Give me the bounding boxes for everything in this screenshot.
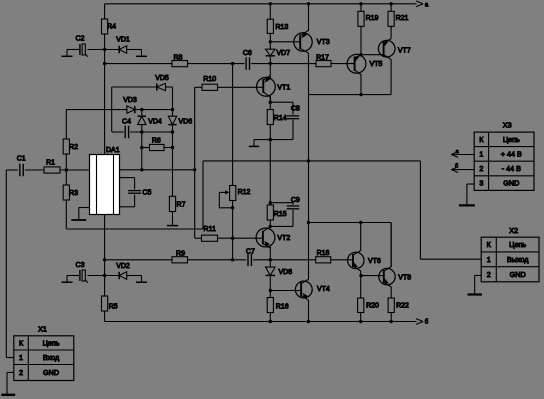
svg-text:2: 2: [487, 270, 491, 279]
svg-text:1: 1: [19, 353, 23, 362]
svg-text:R4: R4: [107, 24, 116, 31]
svg-text:R20: R20: [366, 303, 379, 310]
svg-text:C1: C1: [17, 155, 26, 162]
svg-text:б: б: [425, 320, 429, 326]
svg-text:GND: GND: [503, 179, 519, 188]
svg-text:VT3: VT3: [317, 39, 330, 46]
svg-text:C3: C3: [76, 262, 85, 269]
svg-text:GND: GND: [43, 368, 59, 377]
svg-text:VT7: VT7: [398, 48, 411, 55]
svg-text:+ 44 В: + 44 В: [501, 150, 522, 159]
svg-text:R18: R18: [317, 250, 330, 257]
svg-text:Цепь: Цепь: [509, 240, 526, 249]
svg-text:R14: R14: [274, 115, 287, 122]
svg-text:DA1: DA1: [106, 147, 120, 154]
svg-text:1: 1: [487, 255, 491, 264]
svg-text:R19: R19: [366, 15, 379, 22]
svg-text:R1: R1: [46, 160, 55, 167]
svg-text:VT1: VT1: [277, 84, 290, 91]
svg-text:VT4: VT4: [317, 286, 330, 293]
svg-text:Цепь: Цепь: [503, 135, 520, 144]
svg-text:Выход: Выход: [507, 255, 529, 264]
svg-text:C2: C2: [76, 36, 85, 43]
svg-text:X2: X2: [509, 226, 518, 235]
svg-text:C9: C9: [291, 197, 300, 204]
svg-text:GND: GND: [510, 270, 526, 279]
svg-text:3: 3: [479, 179, 483, 188]
svg-text:VT2: VT2: [277, 235, 290, 242]
svg-text:R15: R15: [274, 211, 287, 218]
svg-text:VT5: VT5: [370, 61, 383, 68]
svg-text:R13: R13: [275, 24, 288, 31]
svg-text:C6: C6: [243, 50, 252, 57]
svg-text:C5: C5: [142, 190, 151, 197]
svg-text:R12: R12: [238, 189, 251, 196]
svg-text:1: 1: [479, 150, 483, 159]
svg-text:VD6: VD6: [178, 118, 192, 125]
svg-text:VD2: VD2: [116, 263, 130, 270]
svg-text:C8: C8: [291, 106, 300, 113]
svg-text:R16: R16: [276, 304, 289, 311]
svg-text:R11: R11: [204, 226, 216, 233]
svg-text:C7: C7: [246, 248, 255, 255]
svg-text:R21: R21: [396, 15, 409, 22]
svg-text:2: 2: [479, 164, 483, 173]
svg-text:2: 2: [19, 368, 23, 377]
svg-text:R5: R5: [109, 304, 118, 311]
svg-text:X3: X3: [503, 121, 512, 130]
svg-text:R3: R3: [69, 190, 78, 197]
svg-text:VT6: VT6: [368, 258, 381, 265]
svg-text:VT8: VT8: [398, 275, 411, 282]
svg-text:VD1: VD1: [116, 37, 130, 44]
svg-text:R9: R9: [176, 251, 185, 258]
svg-text:R10: R10: [203, 76, 216, 83]
svg-text:VD3: VD3: [123, 97, 137, 104]
svg-text:R17: R17: [316, 55, 329, 62]
svg-text:R2: R2: [69, 144, 78, 151]
svg-text:- 44 В: - 44 В: [502, 164, 521, 173]
svg-text:R7: R7: [177, 202, 186, 209]
svg-text:X1: X1: [38, 324, 47, 333]
svg-text:VD4: VD4: [148, 118, 162, 125]
svg-text:VD5: VD5: [155, 75, 169, 82]
svg-text:VD8: VD8: [278, 269, 292, 276]
svg-text:R6: R6: [152, 137, 161, 144]
svg-text:VD7: VD7: [276, 50, 290, 57]
svg-text:б: б: [455, 164, 458, 170]
svg-text:R8: R8: [174, 55, 183, 62]
svg-text:C4: C4: [122, 119, 131, 126]
svg-text:Вход: Вход: [43, 353, 60, 362]
svg-text:R22: R22: [396, 303, 409, 310]
svg-text:Цепь: Цепь: [43, 339, 60, 348]
